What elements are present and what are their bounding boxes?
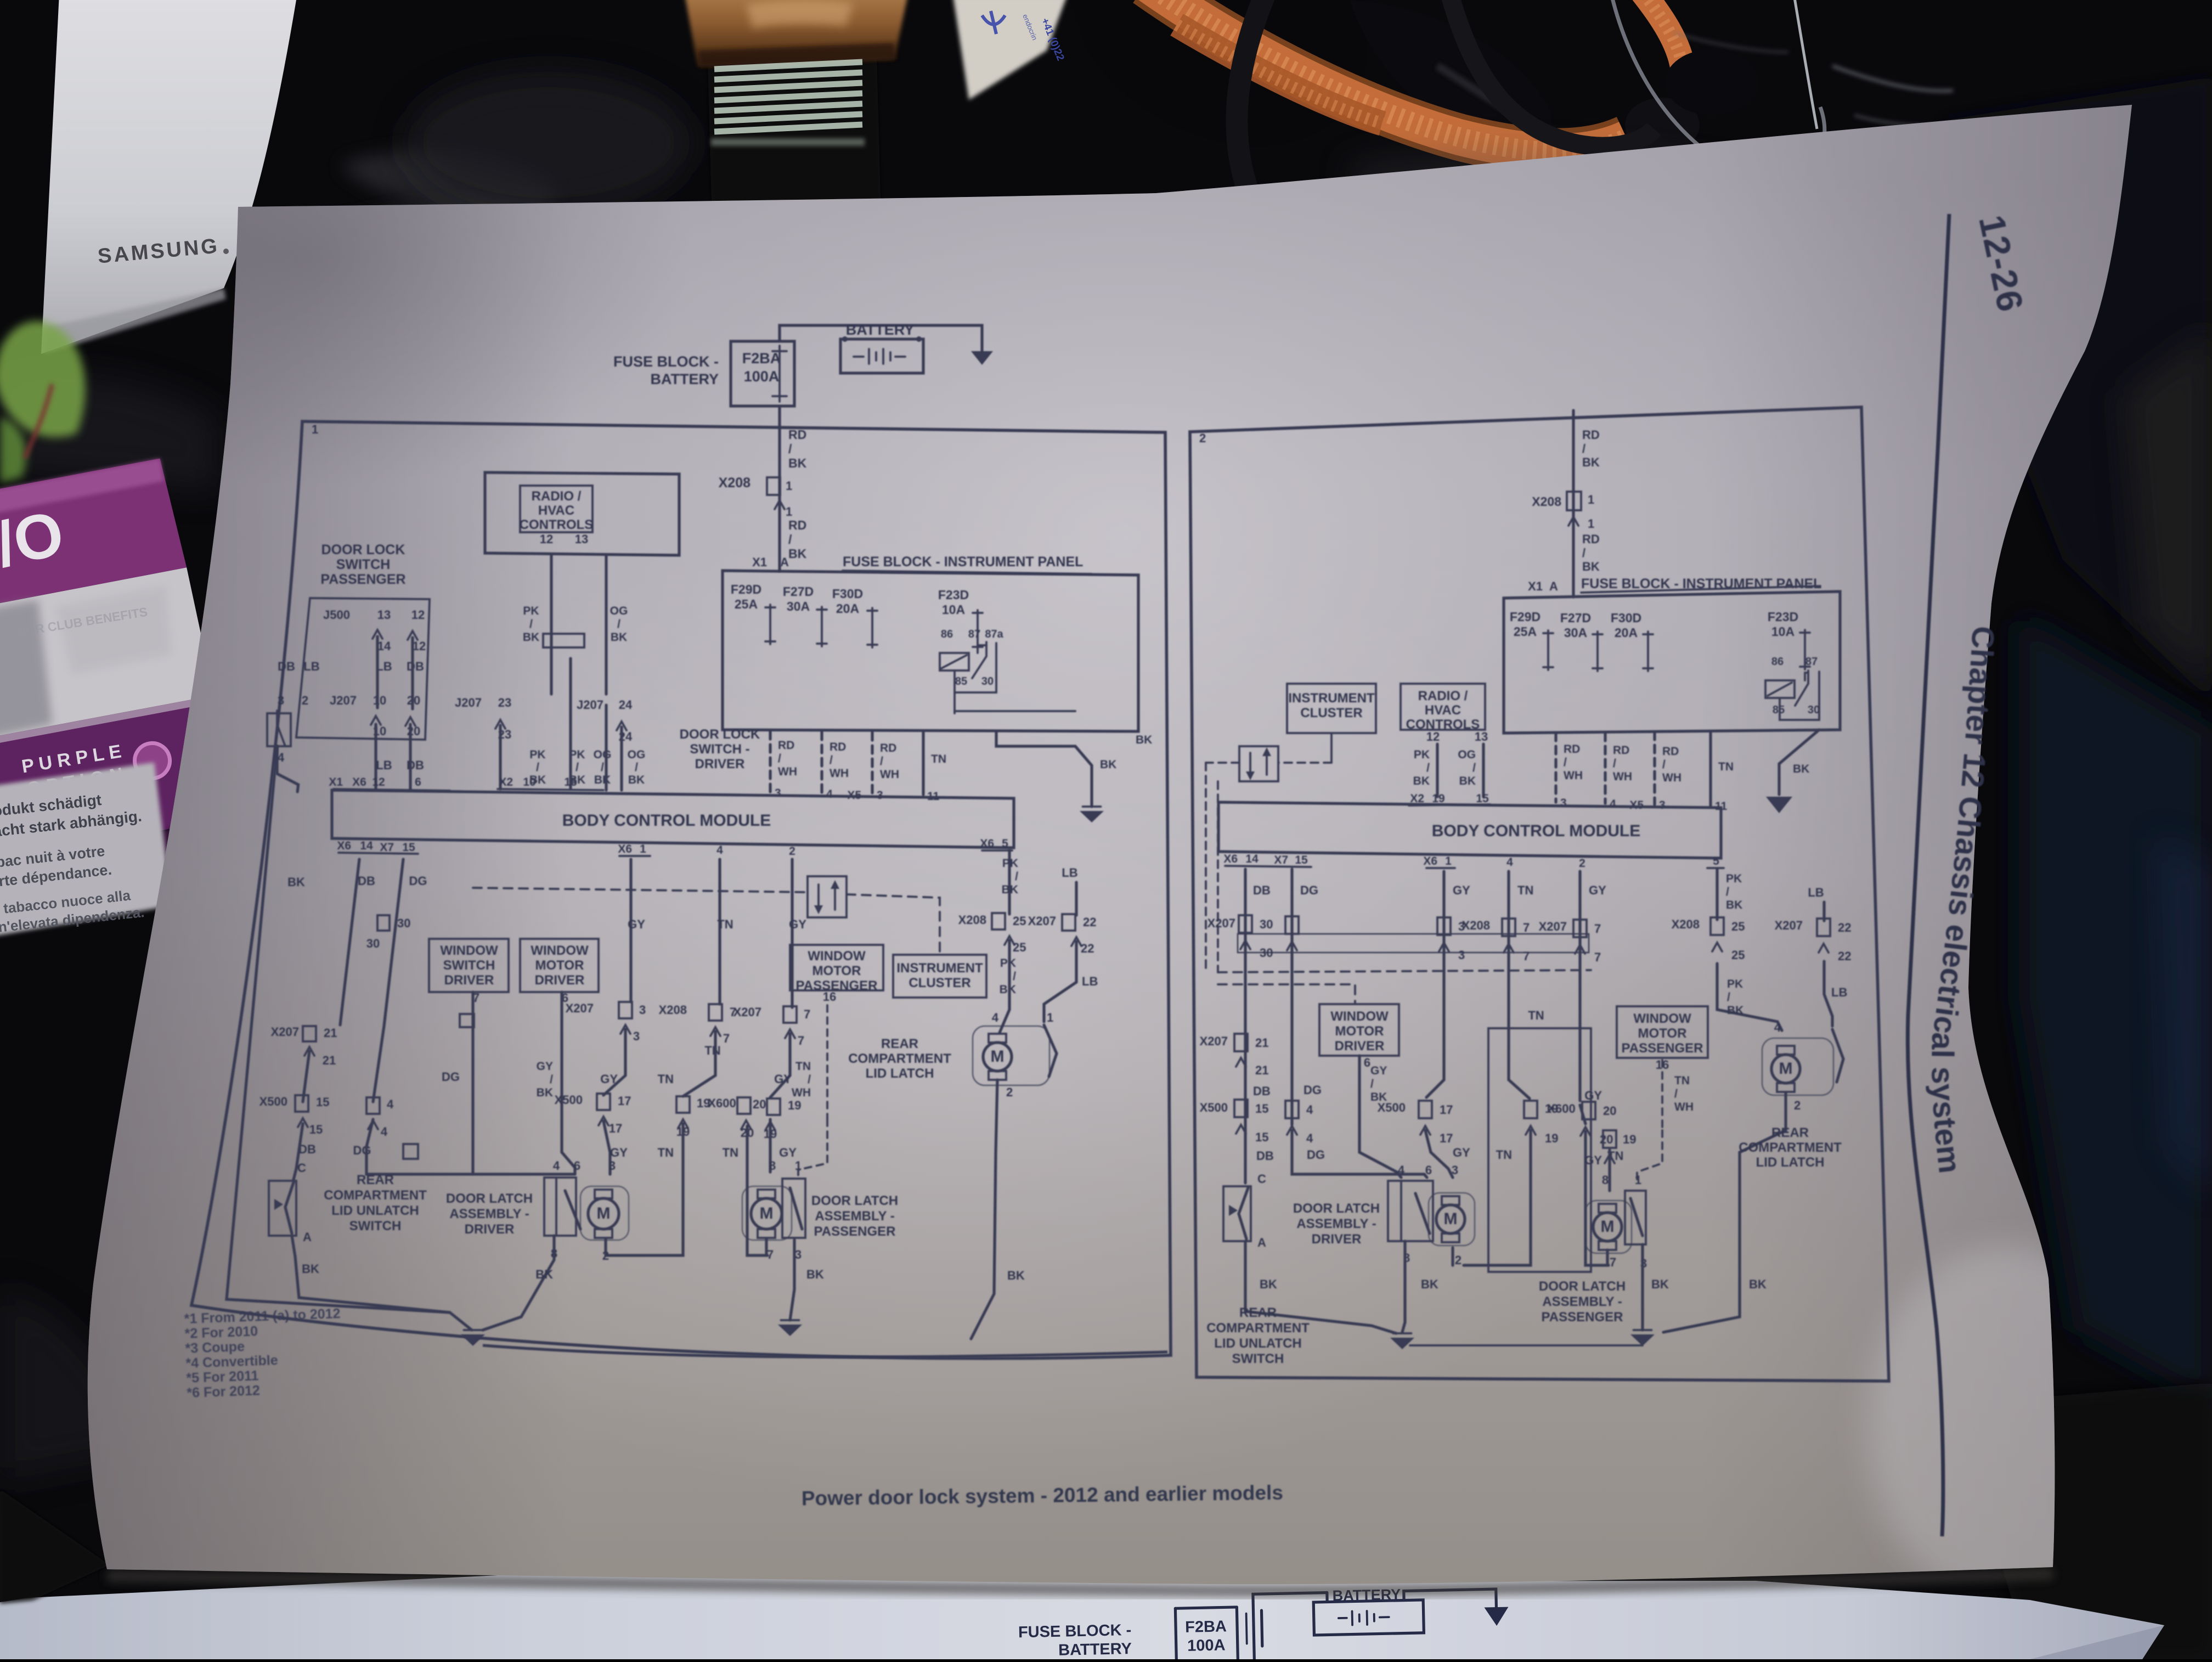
fuse block instrument panel box (723, 571, 1138, 731)
TN wire X600|20 down to passenger latch pin 7 (747, 1126, 768, 1255)
right panel outer border (variant 2) (1190, 407, 1889, 1381)
wire TN from BCM pin 4 down (718, 859, 721, 1004)
GY wire to passenger latch pin 8 (769, 1119, 771, 1172)
door latch driver motor enclosure (580, 1186, 629, 1240)
wire radio pin13 down (605, 555, 607, 694)
svg-text:4: 4 (1610, 798, 1616, 810)
svg-text:12: 12 (372, 776, 385, 788)
svg-text:X7: X7 (380, 841, 394, 854)
svg-text:19: 19 (788, 1098, 801, 1112)
svg-text:X1: X1 (1528, 579, 1543, 593)
GY wire right panel down (1426, 871, 1444, 1097)
svg-text:INSTRUMENTCLUSTER: INSTRUMENTCLUSTER (1288, 691, 1375, 720)
svg-text:6: 6 (1425, 1163, 1432, 1177)
svg-text:17: 17 (1440, 1131, 1453, 1145)
svg-text:DB: DB (1253, 883, 1271, 897)
wires passenger latch to ground right (1641, 1244, 1644, 1330)
door latch assembly driver switch box (544, 1178, 576, 1236)
svg-text:15: 15 (564, 776, 577, 788)
svg-text:F30D20A: F30D20A (832, 587, 863, 616)
svg-text:M: M (991, 1047, 1005, 1066)
TN wire X600|19 down to driver latch pin 2 right (1464, 1130, 1531, 1265)
svg-text:X6: X6 (1223, 853, 1238, 865)
wire J500-12 down to BCM (411, 638, 414, 709)
svg-text:LB: LB (1082, 974, 1098, 988)
dashed to passenger latch pin 1 right (1637, 1130, 1662, 1180)
svg-text:X208: X208 (958, 913, 986, 927)
connector bracket 19 passenger col left panel (767, 1098, 780, 1115)
wires door latch driver to ground right (1402, 1241, 1405, 1332)
svg-text:X208: X208 (1672, 917, 1700, 931)
GY wire to door latch pin 3 (603, 1121, 610, 1174)
dashed line window switch to instrument cluster (847, 894, 940, 954)
bottom sheet battery symbol (1351, 1612, 1353, 1625)
background green leaf (0, 321, 85, 437)
svg-text:15: 15 (309, 1123, 323, 1136)
connector X207|30 marks (377, 915, 390, 931)
dashed TN/WH from window motor passenger (826, 1005, 828, 1119)
svg-text:6: 6 (1364, 1056, 1370, 1069)
connector J207 marks under switch (371, 716, 381, 725)
dashed RD/WH wire to BCM pin 4 right (1604, 733, 1606, 803)
dashed RD/WH wire to BCM pin 3 right (1554, 733, 1557, 802)
DG wire right panel down (1290, 869, 1293, 1125)
svg-text:WINDOWSWITCHDRIVER: WINDOWSWITCHDRIVER (440, 943, 498, 988)
door latch passenger motor (751, 1198, 782, 1229)
small connector mark on DG wire (403, 1144, 418, 1159)
svg-text:13: 13 (575, 532, 588, 546)
svg-text:10: 10 (523, 776, 535, 788)
svg-text:TN: TN (658, 1072, 674, 1086)
svg-text:M: M (597, 1204, 611, 1222)
svg-text:X208: X208 (719, 475, 751, 491)
bus wire right panel bottom (1410, 1344, 1643, 1346)
svg-text:C: C (297, 1161, 306, 1175)
svg-text:BK: BK (287, 875, 305, 889)
svg-text:FUSE BLOCK - INSTRUMENT PANEL: FUSE BLOCK - INSTRUMENT PANEL (843, 554, 1083, 570)
svg-text:X6: X6 (352, 776, 366, 788)
svg-text:4: 4 (387, 1097, 394, 1111)
svg-text:DG: DG (442, 1070, 460, 1084)
svg-text:BATTERY: BATTERY (846, 322, 915, 338)
svg-text:X500: X500 (1200, 1101, 1228, 1114)
svg-text:8: 8 (1602, 1173, 1609, 1187)
background flashlight (707, 15, 882, 263)
svg-text:X2: X2 (499, 776, 513, 788)
svg-text:X500: X500 (1378, 1101, 1406, 1114)
wire radio pin12 down (550, 555, 552, 694)
svg-text:6: 6 (574, 1159, 580, 1173)
rear lid latch switch contact right (1824, 961, 1832, 1026)
svg-text:25: 25 (1013, 940, 1026, 954)
DG wire BCM X7|15 down (373, 859, 403, 1102)
svg-text:X207: X207 (1200, 1034, 1228, 1048)
background Samsung box (41, 0, 297, 354)
battery symbol (868, 349, 870, 364)
svg-text:TN: TN (717, 917, 733, 931)
rear lid latch enclosure outline left (973, 1026, 1049, 1085)
DB wire right panel down (1244, 869, 1246, 1183)
svg-text:X207: X207 (733, 1005, 761, 1019)
svg-text:20: 20 (753, 1097, 766, 1111)
svg-text:30: 30 (1260, 917, 1273, 931)
svg-text:TN: TN (704, 1044, 720, 1057)
svg-text:6: 6 (415, 776, 421, 788)
door latch passenger motor right (1593, 1213, 1622, 1241)
fuse block instrument panel box right (1504, 591, 1840, 733)
svg-text:4: 4 (1306, 1103, 1313, 1117)
relay switch contact (972, 642, 986, 678)
svg-text:3: 3 (1659, 799, 1666, 812)
chapter rule line (1908, 214, 1949, 1536)
wire driver motor pin 2 stub right (1451, 1248, 1454, 1265)
svg-text:5: 5 (1713, 855, 1719, 867)
dashed link cluster to window switch (1278, 762, 1331, 764)
fuse F2BA element (778, 346, 781, 402)
svg-text:2: 2 (1006, 1085, 1013, 1099)
svg-text:4: 4 (1398, 1163, 1405, 1177)
BK wire unlatch switch A to ground (292, 1236, 450, 1312)
svg-text:87: 87 (1805, 656, 1818, 668)
svg-text:5: 5 (1002, 837, 1008, 850)
svg-text:12: 12 (540, 532, 553, 546)
ground passenger right panel (1630, 1334, 1655, 1346)
svg-text:3: 3 (775, 787, 781, 799)
svg-text:DB: DB (1256, 1149, 1274, 1163)
svg-text:7: 7 (1594, 922, 1601, 936)
wires J207 to BCM X2 pins (499, 725, 501, 789)
svg-text:DB: DB (1253, 1084, 1271, 1098)
relay wiring inside fuse block (978, 645, 986, 653)
svg-text:4: 4 (1306, 1131, 1313, 1145)
svg-text:X207: X207 (1539, 920, 1567, 933)
svg-text:X500: X500 (555, 1093, 583, 1107)
svg-text:GY: GY (779, 1146, 797, 1159)
svg-text:DG: DG (1300, 883, 1318, 897)
svg-text:86: 86 (1771, 656, 1784, 668)
svg-text:1: 1 (795, 1159, 802, 1173)
svg-text:GY: GY (1584, 1153, 1602, 1167)
svg-text:19: 19 (1432, 792, 1444, 805)
rear lid unlatch switch right panel (1223, 1186, 1251, 1241)
DB wire to unlatch switch C (294, 1124, 303, 1180)
svg-text:87: 87 (968, 628, 980, 640)
svg-text:86: 86 (941, 628, 953, 640)
svg-text:A: A (1549, 579, 1558, 593)
TN wire to X600|19 (683, 1032, 715, 1096)
svg-text:GY: GY (628, 917, 645, 931)
svg-text:X6: X6 (337, 840, 351, 852)
svg-text:85: 85 (1773, 704, 1785, 716)
svg-text:4: 4 (992, 1011, 999, 1024)
dashed RD/WH wire fuse F29D to BCM pin 3 (769, 731, 771, 792)
svg-text:DB: DB (407, 660, 424, 673)
svg-text:BK: BK (1749, 1277, 1767, 1291)
TN wire right panel down (1509, 871, 1530, 1098)
wire door latch passenger to ground (790, 1240, 794, 1320)
svg-text:7: 7 (798, 1034, 804, 1047)
svg-text:25: 25 (1731, 920, 1745, 933)
LB wire to rear lid latch switch (1044, 942, 1076, 1022)
svg-text:X207: X207 (566, 1001, 594, 1015)
bottom sheet wire to arrow (1404, 1589, 1497, 1610)
TN wire from X600|19 down to driver latch pin 2 (606, 1124, 683, 1255)
svg-text:TN: TN (1496, 1148, 1512, 1162)
svg-text:J207: J207 (577, 698, 603, 712)
svg-text:2: 2 (789, 845, 795, 858)
window lock switch (double arrow) box (808, 876, 847, 917)
door latch passenger motor enclosure right (1585, 1201, 1632, 1253)
battery box (840, 339, 923, 373)
svg-text:BK: BK (1100, 758, 1116, 771)
wire window switch driver down (471, 992, 474, 1174)
wire instrument cluster down (1330, 733, 1333, 763)
wire GY from BCM X6|1 down (629, 859, 632, 1002)
rear compartment lid unlatch switch contact (269, 1181, 296, 1236)
svg-text:WINDOWMOTORDRIVER: WINDOWMOTORDRIVER (1330, 1009, 1389, 1053)
svg-text:15: 15 (1255, 1130, 1268, 1144)
connector strip box X207 right panel (1238, 934, 1589, 953)
door latch driver motor (588, 1198, 619, 1229)
wire WMD down right panel (1359, 1056, 1401, 1178)
svg-text:30: 30 (366, 937, 380, 950)
svg-text:X6: X6 (618, 843, 632, 855)
svg-text:1: 1 (1047, 1011, 1053, 1024)
svg-text:GY: GY (789, 917, 806, 931)
svg-text:BK: BK (1651, 1277, 1669, 1291)
connector J500 marks (373, 630, 382, 639)
svg-text:7: 7 (1523, 949, 1530, 963)
bottom sheet battery box (1313, 1600, 1424, 1635)
svg-text:X600: X600 (708, 1096, 736, 1110)
wire passenger motor pin 7 stub (765, 1239, 768, 1255)
svg-text:F27D30A: F27D30A (1560, 611, 1591, 640)
WINDOW MOTOR DRIVER box (520, 939, 599, 992)
svg-text:LB: LB (1808, 886, 1824, 899)
window lock switch (double arrow) right panel (1239, 746, 1278, 781)
svg-text:4: 4 (1774, 1021, 1781, 1034)
svg-text:F29D25A: F29D25A (1510, 610, 1541, 639)
svg-text:4: 4 (553, 1159, 560, 1173)
svg-text:3: 3 (639, 1003, 646, 1017)
svg-text:7: 7 (1594, 950, 1601, 964)
GY wire 19 down to passenger latch pin 8 right (1608, 1150, 1611, 1191)
svg-text:3: 3 (609, 1159, 616, 1173)
svg-text:DB: DB (278, 660, 295, 673)
svg-text:BODY CONTROL MODULE: BODY CONTROL MODULE (562, 812, 771, 830)
svg-text:25: 25 (1731, 948, 1745, 962)
svg-text:WINDOWMOTORDRIVER: WINDOWMOTORDRIVER (531, 943, 589, 988)
svg-text:GY: GY (600, 1072, 618, 1086)
svg-text:BODY CONTROL MODULE: BODY CONTROL MODULE (1432, 822, 1641, 840)
svg-text:4: 4 (278, 751, 285, 764)
ground below fuse block left panel (1080, 811, 1104, 822)
RD/BK feed wire right panel (1572, 410, 1575, 597)
ground right panel center (1390, 1338, 1414, 1349)
svg-text:BK: BK (806, 1267, 824, 1281)
TN wire X600|20 down to passenger latch pin 7 right (1580, 1105, 1585, 1124)
svg-text:GY: GY (774, 1072, 792, 1086)
svg-text:12: 12 (411, 608, 425, 622)
svg-text:85: 85 (955, 675, 967, 688)
DG wire bend to latch driver pin 6 (366, 1119, 575, 1174)
svg-text:F29D25A: F29D25A (731, 582, 761, 611)
svg-text:A: A (780, 555, 789, 569)
left panel outer border (variant 1) (191, 421, 1171, 1359)
PK/BK wire to rear lid latch motor (1000, 940, 1009, 1033)
door lock switch passenger outer box (296, 598, 430, 740)
svg-text:13: 13 (1475, 730, 1488, 743)
GY2 wire right panel down (1578, 871, 1581, 1101)
connector X600 pins 19 20 (676, 1096, 690, 1113)
bottom sheet arrow down (1484, 1607, 1509, 1626)
DG wire bend to latch driver right (1292, 1130, 1427, 1178)
svg-text:X207: X207 (1028, 914, 1056, 928)
svg-text:4: 4 (381, 1125, 388, 1139)
svg-text:X207: X207 (1207, 916, 1235, 930)
dashed RD/WH wire to BCM pin X5|3 right (1653, 732, 1656, 804)
WINDOW MOTOR PASSENGER box (790, 945, 883, 990)
background paper tag (953, 0, 1067, 100)
svg-text:4: 4 (716, 844, 723, 857)
svg-text:12: 12 (413, 639, 426, 653)
svg-text:16: 16 (823, 990, 836, 1004)
svg-text:J207: J207 (455, 696, 482, 709)
svg-text:M: M (1601, 1218, 1615, 1236)
svg-text:LB: LB (376, 758, 392, 772)
svg-text:2: 2 (1199, 431, 1206, 445)
GY2 wire to X600|20 (770, 1034, 790, 1097)
rear lid latch switch contact (1044, 1025, 1057, 1077)
connector 19 passenger col right (1603, 1130, 1616, 1148)
svg-text:3: 3 (1452, 1163, 1458, 1177)
wire passenger motor pin 7 stub right (1606, 1250, 1609, 1265)
svg-text:14: 14 (1245, 853, 1259, 865)
svg-text:21: 21 (1255, 1063, 1268, 1077)
PK/BK wire right panel down (1716, 869, 1718, 920)
WINDOW SWITCH DRIVER box (429, 939, 509, 992)
bottom sheet fuse F2BA 100A box (1175, 1608, 1176, 1661)
svg-text:2: 2 (1455, 1253, 1462, 1267)
svg-text:DB: DB (358, 874, 375, 888)
WINDOW MOTOR PASSENGER box right panel (1617, 1006, 1708, 1058)
svg-text:X6: X6 (1423, 855, 1437, 867)
svg-text:BK: BK (1136, 734, 1152, 746)
svg-text:22: 22 (1083, 915, 1096, 929)
svg-text:4: 4 (826, 788, 833, 801)
svg-text:TN: TN (723, 1146, 738, 1159)
svg-text:3: 3 (278, 694, 284, 707)
svg-text:X208: X208 (1532, 494, 1561, 509)
bottom sheet fuse element (1253, 1601, 1254, 1659)
svg-text:DOOR LATCHASSEMBLY -PASSENGER: DOOR LATCHASSEMBLY -PASSENGER (1539, 1279, 1626, 1325)
radio wires down right panel (1436, 744, 1438, 797)
BODY CONTROL MODULE bar left panel (332, 790, 1014, 848)
svg-text:19: 19 (1623, 1133, 1636, 1146)
RADIO / HVAC CONTROLS box right panel (1401, 684, 1485, 730)
svg-text:24: 24 (619, 698, 633, 712)
RADIO / HVAC CONTROLS box (520, 486, 592, 532)
svg-text:LB: LB (1831, 985, 1847, 999)
svg-text:25: 25 (1013, 914, 1026, 928)
svg-text:22: 22 (1838, 949, 1851, 963)
svg-text:BK: BK (302, 1262, 319, 1276)
svg-text:22: 22 (1081, 942, 1094, 955)
svg-text:8: 8 (769, 1159, 776, 1173)
svg-text:20: 20 (1600, 1133, 1613, 1146)
svg-text:J207: J207 (330, 694, 357, 707)
svg-text:1: 1 (786, 479, 792, 493)
svg-text:LB: LB (1062, 866, 1077, 880)
wire rear lid latch to ground right (1663, 1093, 1786, 1332)
svg-text:TN: TN (1517, 883, 1533, 897)
svg-text:21: 21 (324, 1026, 337, 1040)
svg-text:X208: X208 (1462, 919, 1490, 932)
svg-text:DG: DG (1304, 1083, 1322, 1097)
LB stub right panel (1822, 902, 1825, 921)
svg-text:2: 2 (1579, 857, 1585, 870)
INSTRUMENT CLUSTER box lower (893, 955, 986, 998)
fuse F2BA 100A box (731, 341, 794, 406)
svg-text:M: M (1779, 1060, 1793, 1078)
svg-text:GY: GY (1453, 883, 1470, 897)
svg-text:30: 30 (1808, 704, 1820, 716)
ground door latch passenger (778, 1325, 802, 1336)
svg-text:INSTRUMENTCLUSTER: INSTRUMENTCLUSTER (896, 961, 983, 990)
BK wire from door lock switch to ground bus (left side) (227, 746, 472, 1330)
BK wire relay 30 to ground right (1779, 730, 1819, 795)
svg-text:22: 22 (1838, 921, 1851, 934)
TN wire relay 85 to BCM pin 11 right (1709, 733, 1712, 805)
svg-text:14: 14 (377, 639, 391, 653)
ground below fuse block right (1766, 797, 1792, 813)
LB stub wire (1075, 882, 1077, 915)
svg-text:7: 7 (723, 1032, 730, 1045)
relay contact right (1795, 671, 1808, 706)
relay coil box right panel (1765, 680, 1795, 698)
TN wire relay 85 to BCM pin 11 (953, 711, 956, 713)
connector bracket pin 3 on GY (1437, 917, 1451, 935)
svg-text:17: 17 (609, 1122, 622, 1135)
background warning label card (0, 762, 173, 937)
svg-text:19: 19 (1545, 1131, 1558, 1145)
svg-text:DG: DG (353, 1143, 371, 1157)
background orange bungee cord (1147, 0, 1627, 152)
ground left panel center (461, 1334, 485, 1346)
svg-text:1: 1 (640, 843, 646, 855)
svg-text:30: 30 (1260, 946, 1273, 960)
dashed RD/WH wire fuse F30D to BCM pin X5|3 (871, 733, 873, 793)
wire RD/BK fuse to X208 to fuse block (778, 406, 781, 571)
dashed drop to window motor driver (1218, 984, 1355, 1003)
background dark shapes (406, 71, 691, 214)
svg-text:17: 17 (1440, 1103, 1453, 1117)
BK wire relay 30 to ground (996, 731, 1092, 807)
dashed RD/WH wire fuse F27D to BCM pin 4 (820, 732, 823, 793)
svg-text:3: 3 (1458, 948, 1465, 962)
svg-text:BK: BK (1260, 1277, 1277, 1291)
svg-text:X207: X207 (271, 1025, 299, 1039)
svg-text:1: 1 (1445, 855, 1452, 867)
svg-text:7: 7 (767, 1248, 774, 1261)
svg-text:15: 15 (1255, 1102, 1268, 1115)
BODY CONTROL MODULE bar right panel (1218, 802, 1721, 858)
door latch driver motor enclosure right (1429, 1193, 1475, 1246)
wire rear lid latch down to bottom border (971, 1080, 997, 1339)
door latch passenger motor enclosure (742, 1186, 792, 1240)
svg-text:BK: BK (1007, 1269, 1025, 1282)
svg-text:X7: X7 (1274, 854, 1288, 866)
